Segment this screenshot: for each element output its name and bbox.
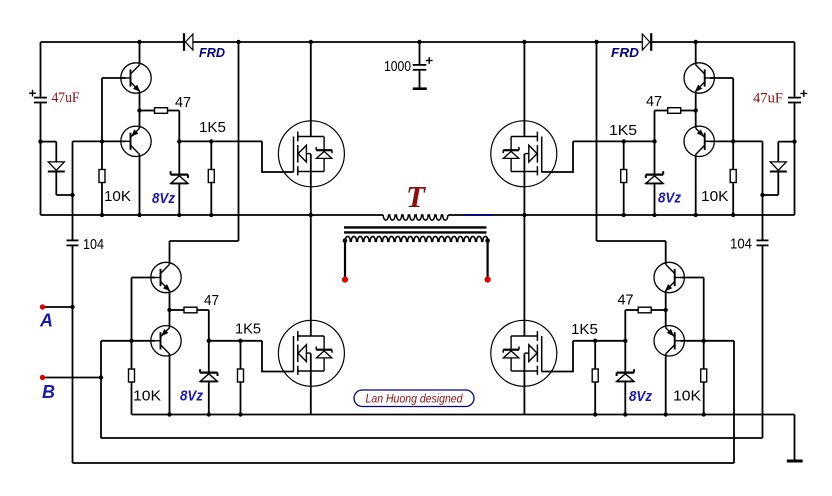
svg-text:Lan Huong designed: Lan Huong designed [366,392,464,406]
svg-text:104: 104 [83,236,104,253]
svg-text:8Vz: 8Vz [658,191,682,207]
svg-text:47: 47 [204,292,219,309]
svg-text:FRD: FRD [611,45,640,60]
svg-text:47: 47 [618,292,634,309]
svg-text:8Vz: 8Vz [152,191,176,207]
svg-text:A: A [39,311,53,331]
svg-text:104: 104 [730,236,752,253]
svg-text:8Vz: 8Vz [629,389,653,405]
svg-text:1000: 1000 [384,58,411,75]
svg-text:47: 47 [646,93,662,110]
svg-text:10K: 10K [133,388,161,405]
svg-text:47uF: 47uF [52,90,80,106]
svg-text:47: 47 [175,94,191,111]
svg-text:1K5: 1K5 [235,321,261,338]
svg-text:1K5: 1K5 [571,321,598,338]
svg-text:FRD: FRD [199,45,226,60]
svg-text:8Vz: 8Vz [180,389,204,405]
svg-text:47uF: 47uF [753,91,783,107]
svg-text:1K5: 1K5 [609,122,637,139]
svg-text:T: T [406,179,426,214]
svg-text:10K: 10K [673,388,701,405]
svg-text:10K: 10K [701,188,729,205]
svg-text:10K: 10K [104,188,131,205]
svg-text:B: B [42,382,55,402]
svg-text:1K5: 1K5 [199,119,226,136]
